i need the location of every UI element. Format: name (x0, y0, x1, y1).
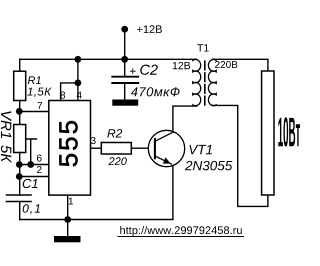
junction dot wiper/pin6 (27, 161, 34, 168)
transformer T1 primary winding (193, 59, 201, 106)
wire pin 4 (77, 59, 79, 100)
junction dot rail/pin6 (16, 161, 23, 168)
potentiometer VR1 (14, 125, 26, 153)
label T1 (197, 44, 209, 51)
wire pin1 to ground (67, 195, 69, 236)
label lamp 10W (278, 117, 300, 146)
pin 3 (91, 137, 96, 144)
junction dot rail/pin2/C1 (16, 173, 23, 180)
label R2 (107, 129, 122, 137)
pin 7 (38, 102, 43, 109)
top rail wire (20, 58, 197, 60)
label 220V winding (215, 61, 237, 68)
wire secondary bottom to lamp (213, 105, 268, 206)
transistor Q1 VT1 (148, 130, 184, 166)
junction dot rail/C2 (121, 56, 128, 63)
value VT1 (185, 161, 232, 171)
lamp EL1 fluorescent tube (262, 71, 274, 195)
ground bar under C2 (112, 100, 138, 106)
node +12V terminal (121, 26, 128, 33)
wire pin 8 bracket (61, 83, 78, 101)
wire collector to transformer (173, 106, 197, 132)
capacitor C2 (124, 59, 126, 76)
capacitor C1 (7, 194, 32, 196)
label website (120, 226, 242, 236)
wire VR1 bottom rail (19, 153, 21, 196)
website underline (118, 236, 245, 238)
pin 2 (37, 166, 42, 173)
label C2 (140, 65, 158, 75)
value R1 (27, 88, 51, 97)
value C1 (23, 204, 40, 214)
junction dot rail/pin4 (75, 56, 82, 63)
op-amp U1 555 timer box (49, 101, 91, 196)
label R1 (28, 76, 41, 84)
wire R2 to base (131, 147, 155, 149)
label 12V winding (173, 62, 190, 69)
value C2 (131, 87, 180, 96)
label VR1 (1, 111, 11, 138)
label VT1 (190, 145, 212, 154)
label C2 plus (130, 68, 136, 74)
pin 4 (77, 92, 82, 99)
wire pin 6 (19, 164, 49, 166)
wire secondary top to lamp (213, 59, 268, 79)
resistor R1 (19, 59, 21, 71)
value R2 (108, 157, 126, 165)
label +12V (137, 25, 162, 33)
transformer T1 secondary winding (208, 59, 216, 105)
transformer T1 core (204, 61, 206, 105)
wire pin 3 (91, 147, 102, 149)
wire +12V drop to top rail (124, 29, 126, 59)
resistor R2 (101, 143, 131, 155)
pin 1 (69, 198, 73, 205)
wire VR1 wiper (26, 139, 37, 165)
pin 8 (60, 92, 65, 99)
junction dot pin1/rail (64, 216, 71, 223)
junction dot pin8/pin4 (75, 80, 82, 87)
junction dot R1/VR1/pin7 (16, 108, 23, 115)
wire pin 7 (19, 111, 49, 113)
bottom ground rail wire (20, 165, 173, 220)
wire pin 2 (19, 176, 49, 178)
value VR1 (1, 145, 11, 163)
label 555 (59, 121, 77, 166)
label C1 (23, 179, 38, 188)
ground bar bottom (54, 236, 81, 242)
pin 6 (37, 155, 42, 162)
